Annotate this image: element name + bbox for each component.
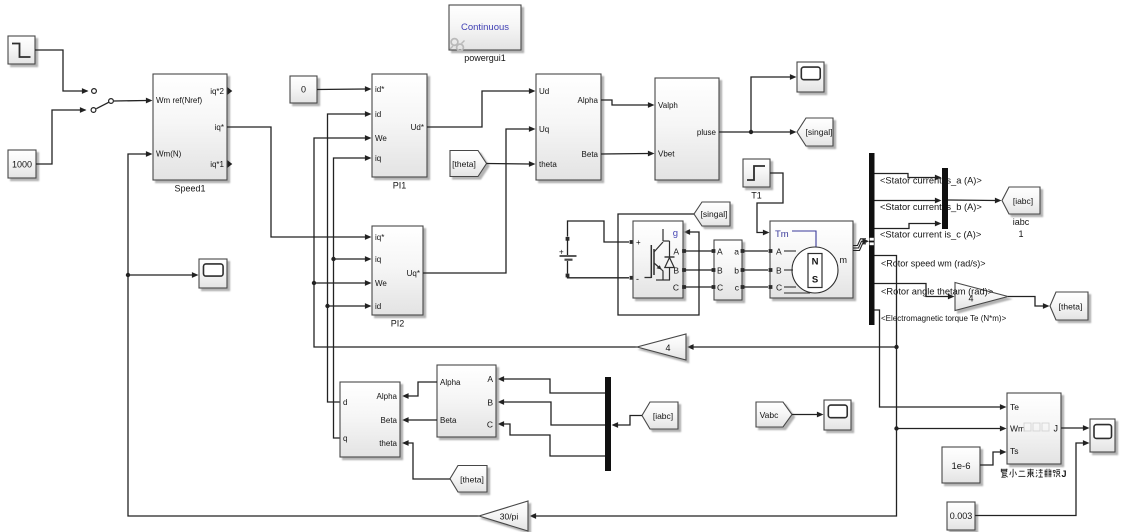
wire J to scope: [1061, 425, 1090, 431]
wire gain4 to goto theta: [1008, 297, 1050, 309]
svg-text:q: q: [343, 434, 347, 443]
subsystem Speed1: [153, 74, 232, 194]
scope top right: [797, 62, 824, 92]
subsystem dq to alphabeta: [536, 74, 601, 180]
svg-text:iq: iq: [375, 255, 381, 264]
svg-text:Alpha: Alpha: [578, 96, 599, 105]
gain 4 left: [637, 334, 686, 360]
svg-text:A: A: [487, 374, 493, 384]
goto tag [theta] right: [1050, 292, 1088, 320]
wire bridge A to measurement A: [685, 250, 712, 252]
step source T1: [743, 159, 770, 201]
wire demux b to clarke B: [498, 399, 606, 425]
wire battery minus to bridge: [568, 276, 634, 280]
svg-text:Uq: Uq: [539, 125, 549, 134]
svg-text:Tm: Tm: [775, 229, 789, 240]
wire Ud* to Ud: [427, 88, 536, 127]
wire measurement a to motor A: [744, 250, 768, 252]
svg-text:J: J: [1054, 424, 1059, 434]
svg-text:Beta: Beta: [381, 416, 398, 425]
wire T1 to PMSM Tm: [757, 173, 783, 235]
svg-text:iq*: iq*: [375, 233, 384, 242]
svg-text:[theta]: [theta]: [452, 159, 476, 169]
svg-text:id*: id*: [375, 85, 384, 94]
universal bridge inverter: [633, 221, 686, 298]
svg-text:d: d: [343, 398, 347, 407]
wire measurement c to motor C: [744, 286, 768, 288]
svg-text:1e-6: 1e-6: [951, 461, 970, 472]
PMSM motor block: [769, 221, 853, 298]
svg-text:powergui1: powergui1: [464, 53, 506, 63]
svg-text:b: b: [734, 266, 739, 276]
step source Step1: [8, 36, 35, 64]
wire 0.003 to scope: [975, 440, 1090, 515]
svg-text:B: B: [717, 266, 723, 276]
svg-text:A: A: [673, 247, 679, 257]
subsystem PI1: [372, 74, 427, 191]
svg-text:-: -: [636, 274, 639, 284]
wire bridge C to measurement C: [685, 286, 712, 288]
svg-text:30/pi: 30/pi: [500, 512, 519, 522]
subsystem alphabeta to dq flipped: [340, 382, 400, 457]
svg-text:g: g: [673, 228, 678, 239]
from tag [iabc] flipped: [642, 402, 678, 429]
svg-text:theta: theta: [539, 160, 557, 169]
manual switch: [96, 99, 113, 109]
wire bus tap rotor speed wm: [530, 256, 899, 519]
label stator current is_b: [880, 202, 982, 212]
wire pluse to scope and goto: [719, 74, 797, 135]
svg-text:id: id: [375, 110, 381, 119]
svg-text:We: We: [375, 279, 387, 288]
svg-text:T1: T1: [751, 191, 762, 201]
svg-text:id: id: [375, 302, 381, 311]
wire bus tap stator current b: [875, 198, 942, 204]
from tag [theta] bottom flipped: [450, 466, 487, 493]
svg-text:A: A: [717, 247, 723, 257]
svg-text:S: S: [812, 275, 818, 286]
svg-text:Wm ref(Nref): Wm ref(Nref): [156, 96, 203, 105]
svg-text:<Stator current is_a (A)>: <Stator current is_a (A)>: [880, 175, 982, 185]
powergui block: [449, 5, 521, 63]
constant Constant 1000: [8, 150, 36, 178]
wire [iabc] to demux: [612, 416, 643, 428]
bus selector bar: [869, 153, 875, 325]
gain 30/pi: [479, 501, 528, 531]
svg-text:A: A: [776, 247, 782, 257]
svg-text:iabc: iabc: [1013, 217, 1030, 227]
mux bar iabc: [942, 168, 948, 229]
svg-text:+: +: [636, 238, 641, 247]
svg-text:<Rotor angle thetam (rad)>: <Rotor angle thetam (rad)>: [881, 286, 993, 296]
three-phase measurement block: [712, 240, 745, 300]
svg-text:[theta]: [theta]: [1059, 302, 1083, 312]
svg-text:[iabc]: [iabc]: [1013, 196, 1033, 206]
wire bus tap torque to identification Te: [875, 310, 1007, 410]
wire q feedback to PI1 iq and PI2 iq: [331, 155, 371, 438]
svg-text:<Rotor speed wm (rad/s)>: <Rotor speed wm (rad/s)>: [881, 258, 986, 268]
svg-text:PI1: PI1: [393, 181, 407, 191]
svg-text:C: C: [673, 283, 679, 293]
wire battery plus to bridge: [568, 221, 634, 244]
label rotor angle thetam: [881, 286, 993, 296]
wire bus tap stator current a: [875, 174, 942, 181]
wire Step1 to switch input 1: [35, 50, 96, 94]
goto tag [iabc]: [1002, 187, 1040, 239]
svg-text:PI2: PI2: [391, 319, 405, 329]
svg-text:[iabc]: [iabc]: [653, 411, 673, 421]
svg-text:Vabc: Vabc: [760, 410, 779, 420]
wire Constant1000 to switch input 2: [36, 107, 96, 164]
constant Constant 0: [290, 76, 317, 103]
svg-text:B: B: [673, 266, 679, 276]
svg-text:Beta: Beta: [582, 150, 599, 159]
svg-text:Vbet: Vbet: [658, 150, 675, 159]
constant 1e-6: [942, 447, 980, 483]
svg-text:J: J: [1062, 469, 1067, 479]
dc voltage source battery: [559, 237, 577, 278]
scope left: [199, 259, 227, 288]
svg-text:[theta]: [theta]: [460, 475, 484, 485]
wire [singal] to bridge gate: [618, 214, 699, 315]
gain 4 pole pairs: [955, 283, 1008, 311]
wire switch to Speed1 Wm ref: [114, 98, 153, 104]
wire Beta to Vbet: [601, 151, 655, 157]
constant 0.003: [947, 502, 975, 530]
svg-text:0: 0: [301, 85, 306, 95]
wire 1e-6 to Ts: [980, 449, 1007, 465]
wire [theta] to dq2abc theta: [487, 161, 536, 167]
wire Vabc to scope: [792, 412, 824, 418]
svg-text:[singal]: [singal]: [806, 127, 833, 137]
svg-text:iq*2: iq*2: [210, 87, 224, 96]
svg-text:Alpha: Alpha: [440, 378, 461, 387]
from tag [singal] flipped: [694, 202, 730, 226]
wire demux a to clarke A: [498, 376, 606, 393]
svg-text:+: +: [559, 248, 564, 257]
wire clarke Alpha to park Alpha: [402, 382, 437, 399]
wire d feedback to PI1 id and PI2 id: [325, 111, 371, 402]
svg-text:Wm(N): Wm(N): [156, 150, 182, 159]
label rotor speed wm: [881, 258, 986, 268]
svg-text:<Stator current is_b (A)>: <Stator current is_b (A)>: [880, 202, 982, 212]
label stator current is_a: [880, 175, 982, 185]
svg-text:iq*: iq*: [215, 123, 224, 132]
svg-text:Uq*: Uq*: [407, 269, 420, 278]
svg-text:[singal]: [singal]: [701, 209, 728, 219]
svg-text:1000: 1000: [12, 160, 32, 170]
wire Alpha to Valph: [601, 100, 655, 108]
subsystem SVPWM: [655, 78, 719, 180]
svg-text:<Stator current is_c (A)>: <Stator current is_c (A)>: [880, 229, 981, 239]
svg-text:B: B: [487, 398, 493, 408]
wire mux to goto iabc: [948, 198, 1002, 204]
wire rotor speed branch to gain4 left: [687, 344, 897, 350]
wire [theta] to park theta: [402, 440, 450, 479]
svg-text:Alpha: Alpha: [377, 392, 398, 401]
scope bottom right: [1090, 419, 1115, 452]
svg-text:C: C: [776, 283, 782, 293]
wire bus tap stator current c: [875, 221, 942, 229]
svg-text:C: C: [487, 420, 493, 430]
subsystem PI2: [372, 226, 423, 329]
label electromagnetic torque: [881, 314, 1007, 323]
svg-text:<Electromagnetic torque Te (N*: <Electromagnetic torque Te (N*m)>: [881, 314, 1007, 323]
svg-text:m: m: [840, 255, 848, 265]
svg-text:Beta: Beta: [440, 416, 457, 425]
svg-text:Wm: Wm: [1010, 424, 1025, 434]
wire demux c to clarke C: [498, 421, 606, 456]
svg-text:4: 4: [665, 343, 670, 353]
wire Speed1 iq* to PI2 iq*: [227, 127, 372, 240]
svg-text:We: We: [375, 134, 387, 143]
svg-text:B: B: [776, 266, 782, 276]
wire Constant0 to PI1 id*: [317, 86, 372, 92]
wire measurement b to motor B: [744, 269, 768, 271]
svg-text:Ud*: Ud*: [411, 123, 424, 132]
demux bar: [605, 377, 611, 471]
svg-text:a: a: [734, 247, 739, 257]
goto tag [singal]: [797, 118, 833, 146]
svg-text:0.003: 0.003: [950, 511, 973, 521]
wire Uq* to Uq: [423, 126, 536, 273]
wire bus tap rotor angle: [875, 284, 955, 300]
label stator current is_c: [880, 229, 981, 239]
wire clarke Beta to park Beta: [402, 417, 437, 423]
svg-text:theta: theta: [379, 439, 397, 448]
from tag [theta] middle: [450, 151, 487, 177]
svg-text:Ts: Ts: [1010, 446, 1019, 456]
svg-text:N: N: [812, 257, 819, 268]
wire rotor speed branch to identification Wm: [897, 426, 1007, 432]
svg-text:Speed1: Speed1: [174, 184, 205, 194]
bus wire motor m to bus selector: [853, 238, 869, 250]
svg-text:Ud: Ud: [539, 87, 549, 96]
subsystem least squares identification: [1001, 393, 1067, 479]
svg-text:Te: Te: [1010, 402, 1019, 412]
svg-text:1: 1: [1018, 229, 1023, 239]
svg-text:iq: iq: [375, 154, 381, 163]
svg-text:Valph: Valph: [658, 101, 678, 110]
svg-text:pluse: pluse: [697, 128, 717, 137]
svg-text:Continuous: Continuous: [461, 22, 509, 33]
wire wm feedback to Wm(N) and scope: [126, 151, 479, 516]
scope Vabc: [824, 400, 851, 430]
subsystem abc to alphabeta flipped: [437, 365, 496, 437]
svg-text:C: C: [717, 283, 723, 293]
svg-text:iq*1: iq*1: [210, 160, 224, 169]
wire We to PI1 We and PI2 We: [312, 135, 637, 347]
wire bridge B to measurement B: [685, 269, 712, 271]
from tag Vabc: [756, 402, 792, 427]
